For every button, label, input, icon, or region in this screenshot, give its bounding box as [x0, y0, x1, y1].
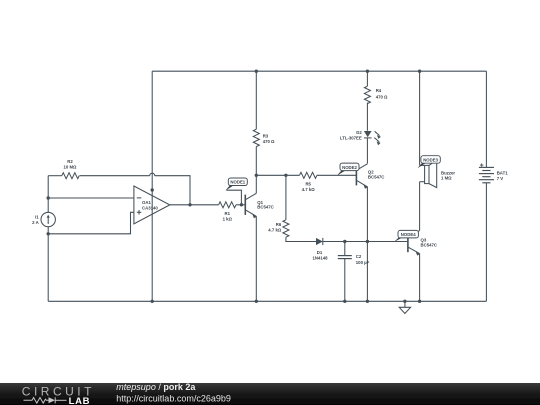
- wire R6 bottom to D1: [286, 237, 316, 241]
- wire R3 to collector node: [255, 147, 257, 176]
- svg-text:I1: I1: [35, 214, 39, 219]
- svg-text:http://circuitlab.com/c26a9b9: http://circuitlab.com/c26a9b9: [116, 393, 231, 403]
- node junction bottom rail at Q3 emitter: [418, 300, 421, 303]
- svg-text:470 Ω: 470 Ω: [263, 139, 275, 144]
- node junction top rail at R4: [366, 70, 369, 73]
- wire battery top: [485, 71, 487, 167]
- wire left column lower (I1 to bottom rail): [47, 227, 49, 302]
- resistor R3: [253, 129, 259, 146]
- capacitor C2: [338, 256, 352, 259]
- buzzer BZ1: [420, 160, 437, 188]
- wire op-amp output: [170, 204, 219, 206]
- svg-text:R2: R2: [67, 159, 73, 164]
- wire collector node to R5: [256, 174, 299, 176]
- wire Q1 collector: [255, 175, 257, 193]
- node junction Q1 collector: [255, 174, 258, 177]
- node NODE1 flag: [225, 178, 247, 205]
- svg-text:mtepsupo / pork 2a: mtepsupo / pork 2a: [116, 382, 196, 392]
- wire R2 to hop: [80, 175, 150, 177]
- node junction feedback/output: [188, 203, 191, 206]
- diode D1: [316, 238, 323, 245]
- node junction C2 top: [343, 240, 346, 243]
- wire hop over supply column: [150, 173, 155, 176]
- wire R4 column from top rail: [366, 71, 368, 86]
- svg-text:BC547C: BC547C: [368, 174, 384, 179]
- wire hop to feedback corner: [155, 176, 190, 205]
- svg-text:C2: C2: [356, 254, 362, 259]
- svg-text:1 kΩ: 1 kΩ: [223, 217, 233, 222]
- battery BAT1: [479, 163, 494, 182]
- LED D2: [364, 131, 381, 145]
- wire buzzer column from top rail: [419, 71, 421, 165]
- svg-text:NODE4: NODE4: [401, 232, 416, 237]
- wire C2 top pin: [344, 242, 346, 256]
- transistor Q1: [245, 193, 257, 218]
- svg-text:BC547C: BC547C: [257, 205, 273, 210]
- wire bottom rail: [48, 300, 486, 302]
- wire C2 bottom pin: [344, 259, 346, 301]
- wire inverting input: [48, 197, 134, 199]
- logo waveform: [24, 397, 67, 403]
- ground: [399, 301, 410, 313]
- svg-text:2 A: 2 A: [32, 220, 39, 225]
- node junction top rail at buzzer: [418, 70, 421, 73]
- resistor R2: [62, 173, 79, 179]
- transistor Q3: [408, 231, 420, 256]
- wire R5 to Q2 base: [317, 174, 357, 176]
- svg-text:R5: R5: [305, 182, 311, 187]
- svg-text:1N4148: 1N4148: [312, 256, 328, 261]
- svg-text:LAB: LAB: [69, 396, 91, 405]
- node NODE3 flag: [417, 156, 440, 169]
- svg-text:R6: R6: [276, 222, 282, 227]
- wire R2 left segment: [48, 175, 62, 177]
- node junction top rail at R3: [255, 70, 258, 73]
- wire D1 to Q3 base: [323, 241, 408, 243]
- resistor R6: [283, 220, 289, 237]
- wire R6 top: [285, 175, 287, 220]
- current source I1: [41, 212, 55, 226]
- wire Q1 emitter to bottom rail: [255, 216, 257, 301]
- node junction inverting input: [47, 196, 50, 199]
- svg-text:100 µF: 100 µF: [356, 260, 370, 265]
- svg-text:7 V: 7 V: [497, 176, 504, 181]
- svg-text:4.7 kΩ: 4.7 kΩ: [268, 228, 282, 233]
- node junction Q2 emitter net: [366, 240, 369, 243]
- svg-text:LTL-307EE: LTL-307EE: [340, 136, 362, 141]
- svg-text:D2: D2: [356, 130, 362, 135]
- svg-text:BC547C: BC547C: [421, 242, 437, 247]
- resistor R5: [300, 172, 317, 178]
- wire Q3 emitter to bottom rail: [419, 254, 421, 302]
- node junction bottom rail at supply column: [151, 300, 154, 303]
- resistor R4: [364, 86, 370, 103]
- svg-text:NODE3: NODE3: [423, 157, 438, 162]
- node junction op-amp V+: [151, 188, 154, 191]
- node junction bottom rail at ground: [403, 300, 406, 303]
- svg-text:OA1: OA1: [142, 200, 151, 205]
- svg-text:R4: R4: [376, 88, 382, 93]
- svg-text:4.7 kΩ: 4.7 kΩ: [302, 187, 316, 192]
- node NODE2 flag: [337, 163, 359, 176]
- svg-text:10 MΩ: 10 MΩ: [64, 165, 78, 170]
- wire R3 column from top rail: [255, 71, 257, 129]
- op-amp OA1: [134, 186, 170, 224]
- svg-text:NODE1: NODE1: [230, 180, 245, 185]
- wire left column upper (R2 corner to I1): [47, 176, 49, 213]
- wire non-inverting input: [48, 212, 134, 234]
- node junction non-inverting input: [47, 232, 50, 235]
- node junction Q1 base: [240, 203, 243, 206]
- resistor R1: [219, 202, 236, 208]
- svg-text:R1: R1: [225, 211, 231, 216]
- wire top rail: [152, 70, 486, 72]
- node NODE4 flag: [394, 230, 418, 242]
- node junction bottom rail at Q1 emitter: [255, 300, 258, 303]
- transistor Q2: [356, 164, 368, 189]
- wire Q2 emitter to bottom rail: [366, 187, 368, 302]
- svg-text:CA3140: CA3140: [142, 206, 158, 211]
- wire op-amp supply column: [151, 71, 153, 301]
- wire R1 to Q1 base: [236, 204, 245, 206]
- node junction bottom rail at Q2 emitter: [366, 300, 369, 303]
- node junction bottom rail at C2: [343, 300, 346, 303]
- svg-text:BAT1: BAT1: [497, 171, 509, 176]
- svg-text:R3: R3: [263, 133, 269, 138]
- wire buzzer bottom to Q3 collector: [419, 182, 421, 231]
- node junction R6 tap: [284, 174, 287, 177]
- svg-text:470 Ω: 470 Ω: [376, 95, 388, 100]
- wire R4 to LED: [366, 103, 368, 131]
- wire LED to Q2 collector: [366, 138, 368, 164]
- svg-text:D1: D1: [317, 250, 323, 255]
- wire battery bottom: [485, 183, 487, 301]
- svg-text:NODE2: NODE2: [342, 165, 357, 170]
- svg-text:1 MΩ: 1 MΩ: [441, 176, 452, 181]
